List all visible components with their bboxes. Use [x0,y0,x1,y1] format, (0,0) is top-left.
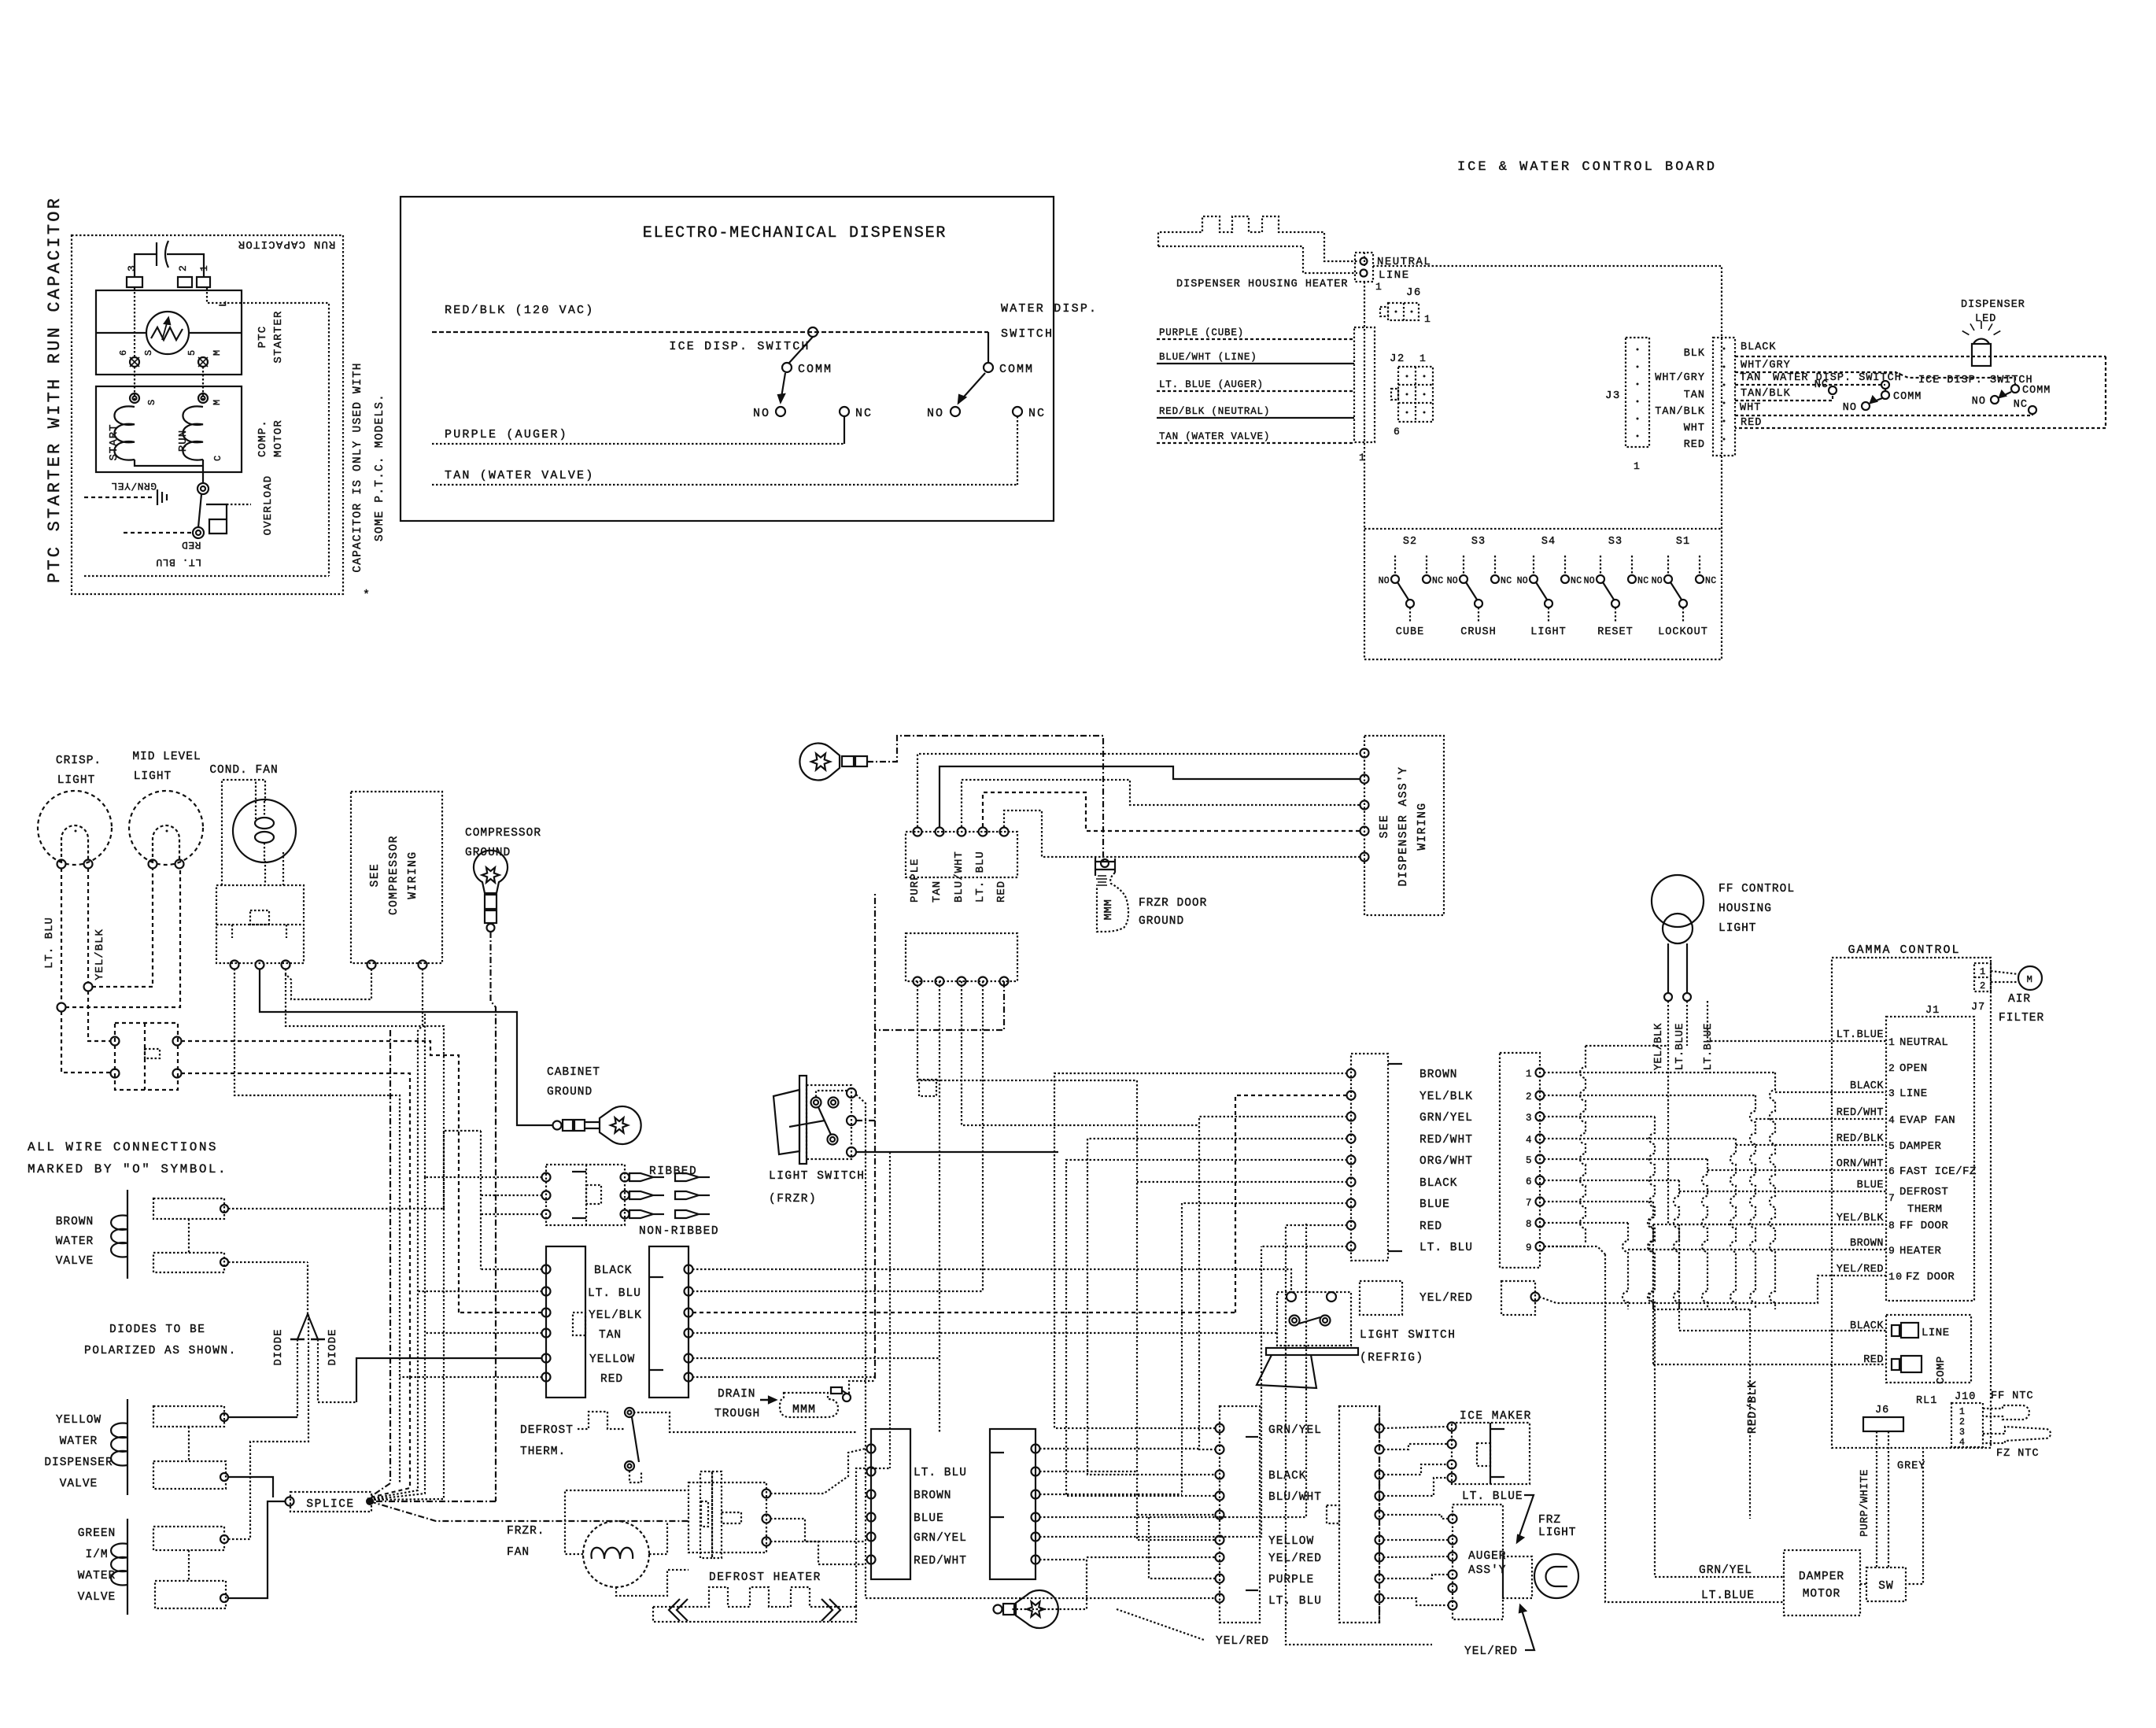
wire compressor ground down [491,932,497,1501]
light switch FRZR blade [818,1107,831,1135]
svg-text:10: 10 [1888,1271,1903,1283]
J2 pin 4 [1536,1135,1545,1143]
freezer compartment connector terminal 9 [1216,1594,1224,1603]
board edge connector (right) [1713,338,1735,456]
svg-text:LED: LED [1975,313,1996,325]
svg-text:1: 1 [1375,281,1383,293]
auger terminal 3 [1449,1553,1457,1561]
wire to ice maker t2 [1383,1444,1448,1449]
wires PURP/WHITE to switch [1876,1431,1877,1567]
J2 pin 1 [1536,1069,1545,1077]
svg-text:S1: S1 [1676,536,1690,548]
svg-text:LT. BLU: LT. BLU [974,851,987,903]
wire J2 pin 1 to gamma bus [1544,1072,1775,1073]
freezer compartment connector left half [1220,1406,1260,1623]
wire purple to dispenser assy [917,754,1360,827]
svg-text:NO: NO [1652,576,1663,586]
yellow water dispenser valve solenoid [127,1399,128,1495]
svg-text:WHT/GRY: WHT/GRY [1741,360,1791,371]
ice dispenser switch NC contact [840,407,849,416]
control board outline [1364,266,1722,659]
svg-text:FRZR DOOR: FRZR DOOR [1139,897,1207,910]
svg-text:1: 1 [1419,353,1427,364]
svg-text:CABINET: CABINET [547,1066,600,1079]
svg-text:VALVE: VALVE [56,1255,94,1268]
svg-text:DISPENSER ASS'Y: DISPENSER ASS'Y [1397,766,1410,886]
right-half terminal 5 [685,1354,693,1363]
wire YELLOW mid run [692,1357,940,1359]
wire yellow valve lower to splice [228,1477,273,1497]
FF NTC thermistor [1983,1405,2029,1420]
freezer compartment connector terminal 6 [1216,1536,1224,1545]
FZ NTC thermistor [1983,1427,2051,1443]
svg-text:GREEN: GREEN [78,1527,116,1540]
start winding [114,406,135,460]
freezer harness right terminal 1 [1032,1445,1040,1453]
svg-text:DIODE: DIODE [272,1328,285,1365]
gamma control board outline [1832,958,1991,1448]
svg-text:NC: NC [2014,399,2028,411]
wire x611 multi-tap vertical [480,1131,482,1269]
freezer door ground symbol [1101,859,1109,867]
wire YEL/RED connector to gamma FZ DOOR [1539,1276,1886,1303]
svg-text:S: S [146,398,157,405]
svg-text:BROWN: BROWN [914,1490,952,1502]
wire LT. BLU mid run [692,1290,983,1292]
svg-text:TAN (WATER VALVE): TAN (WATER VALVE) [1159,431,1270,442]
wire blue/wht line [1157,363,1354,364]
svg-text:YEL/RED: YEL/RED [1837,1264,1884,1276]
light switch FRZR terminal 2 [847,1116,856,1125]
svg-text:9: 9 [1526,1242,1533,1254]
wire t9 feed [866,1154,1216,1598]
ribbed connector left terminal 3 [542,1210,551,1219]
electro-mechanical dispenser enclosure [401,197,1054,521]
right-half terminal 4 [685,1329,693,1338]
svg-text:LT. BLU: LT. BLU [914,1467,967,1479]
light switch REFRIG terminal A [1287,1292,1296,1302]
ribbed connector right terminal 3 [621,1210,629,1219]
relay terminal 3 [282,961,290,969]
svg-text:2: 2 [1959,1417,1966,1427]
harness connector (right half) [649,1246,689,1398]
auger terminal 1 [1449,1515,1457,1523]
svg-text:RED/BLK (120 VAC): RED/BLK (120 VAC) [445,304,594,317]
auger terminal 6 [1449,1601,1457,1610]
lower half terminal 3 [958,977,966,986]
harness pin BROWN [1347,1069,1356,1078]
relay terminal 1 [231,961,239,969]
harness pin LT. BLU [1347,1242,1356,1251]
svg-text:ASS'Y: ASS'Y [1468,1564,1507,1577]
wire windings common to overload [135,460,203,466]
svg-text:FF NTC: FF NTC [1991,1390,2034,1402]
svg-text:YELLOW: YELLOW [589,1353,635,1366]
svg-text:OVERLOAD: OVERLOAD [262,475,275,536]
wire freezer harness t4 right [1039,1224,1306,1517]
right-half terminal 1 [685,1265,693,1274]
ribbed connector left terminal 1 [542,1173,551,1182]
svg-text:1: 1 [1424,313,1431,325]
wire damper to SW [1860,1583,1866,1585]
FF light terminal 2 [1683,993,1691,1001]
wire diode common up [307,1262,308,1314]
svg-text:4: 4 [1959,1438,1966,1448]
relay terminal 2 [256,961,264,969]
ice disp switch NO (right) [1991,396,1999,404]
svg-text:CAPACITOR IS ONLY USED WITH: CAPACITOR IS ONLY USED WITH [352,362,364,572]
defrost heater left chevrons [669,1599,680,1621]
svg-text:FF DOOR: FF DOOR [1899,1220,1948,1232]
svg-text:TAN: TAN [931,881,943,903]
wire blu/wht to dispenser assy [962,780,1360,827]
wire tan to dispenser assy [940,766,1360,827]
svg-text:J2: J2 [1390,353,1405,365]
wire LT. BLU run [1261,1246,1347,1247]
svg-text:GROUND: GROUND [1139,915,1184,928]
svg-text:NO: NO [1517,576,1528,586]
upper half terminal 3 [958,828,966,836]
right-half terminal 6 [685,1373,693,1382]
dispenser assy terminal 2 [1360,775,1369,784]
wire x1112 drain trough riser [874,1121,876,1381]
right half terminal 1 [1375,1424,1384,1433]
board edge connector J1 (left, dashed) [1354,327,1375,442]
node junction on RED/BLK wire [808,327,818,337]
terminal 3 of PTC starter [127,277,142,287]
harness pin GRN/YEL [1347,1113,1356,1121]
ice maker terminal 1 [1448,1423,1456,1431]
svg-text:OPEN: OPEN [1899,1062,1928,1075]
wire timer t1 right [770,1449,866,1494]
door switch terminal bottom-left [111,1069,120,1078]
svg-text:LIGHT SWITCH: LIGHT SWITCH [769,1170,865,1183]
PTC/run-capacitor outer enclosure box [72,235,343,594]
svg-text:LT. BLU: LT. BLU [156,556,201,568]
terminal 1 of PTC starter [197,277,210,287]
light switch REFRIG mounting plate [1266,1348,1358,1355]
svg-text:RED: RED [1684,439,1705,451]
ribbed pin arrows row3 [629,1210,653,1218]
svg-text:BLACK: BLACK [1850,1080,1884,1092]
svg-text:ICE DISP. SWITCH: ICE DISP. SWITCH [669,340,810,353]
wire door switch top-right to ribbed and black runs [181,1041,459,1313]
svg-text:6: 6 [1526,1176,1533,1187]
svg-text:TROUGH: TROUGH [714,1408,760,1420]
wire to auger t2 [1383,1539,1449,1541]
svg-text:BROWN: BROWN [1850,1238,1884,1250]
wire red lower down to dash-dot rail [875,981,1004,1030]
lower half terminal 5 [1000,977,1009,986]
svg-text:S2: S2 [1403,536,1417,548]
dispenser harness connector lower half [906,933,1017,981]
light switch FRZR terminal 3 [847,1147,856,1157]
svg-text:BLACK: BLACK [594,1265,633,1277]
wire YEL/BLK run (dashed) [1235,1095,1347,1313]
svg-text:SEE: SEE [1379,814,1391,839]
wire t8 feed [1149,1517,1216,1578]
J2 pin 5 [1536,1155,1545,1164]
svg-text:FILTER: FILTER [1999,1012,2044,1025]
harness pin RED [1347,1221,1356,1230]
relay RL1 box [1886,1315,1971,1383]
svg-text:BLU/WHT: BLU/WHT [1268,1491,1322,1504]
svg-text:NC: NC [1571,576,1582,586]
freezer harness left terminal 6 [867,1556,876,1564]
wire PURPLE auger [432,443,844,445]
svg-text:PURP/WHITE: PURP/WHITE [1859,1469,1871,1537]
ribbed/non-ribbed connector block [546,1165,625,1225]
svg-text:4: 4 [1526,1135,1533,1146]
svg-text:GRN/YEL: GRN/YEL [914,1532,967,1545]
svg-text:YEL/RED: YEL/RED [1464,1645,1518,1658]
svg-text:DEFROST: DEFROST [520,1424,574,1437]
wire TAN mid run [692,1332,1277,1334]
water disp switch blade [1870,398,1882,403]
wire J2 pin 4 to gamma bus [1544,1138,1736,1139]
freezer compartment connector right half [1339,1406,1379,1623]
svg-text:AIR: AIR [2008,993,2031,1006]
harness pin BLACK [1347,1178,1356,1187]
svg-text:S3: S3 [1608,536,1623,548]
wire BLACK from left-half to x611 [481,1268,542,1270]
svg-text:MMM: MMM [1102,899,1115,921]
svg-text:YEL/BLK: YEL/BLK [1419,1091,1473,1103]
svg-text:SW: SW [1878,1580,1893,1593]
svg-text:DEFROST: DEFROST [1899,1186,1948,1198]
wire J2 pin 3 to damper GRN/YEL [1649,1117,1655,1577]
wire ORG/WHT run [1066,1160,1347,1496]
svg-text:POLARIZED AS SHOWN.: POLARIZED AS SHOWN. [84,1345,237,1357]
box SEE DISPENSER ASS'Y WIRING [1364,736,1444,915]
right half terminal 4 [1375,1492,1384,1501]
svg-text:J6: J6 [1875,1405,1889,1416]
svg-text:GRN/YEL: GRN/YEL [111,480,157,492]
wire frzr switch t1 to x1100 [856,1095,866,1154]
light switch FRZR terminal 1 [847,1088,856,1098]
svg-text:LIGHT: LIGHT [1530,626,1567,638]
svg-text:BLUE: BLUE [914,1512,944,1525]
defrost timer block [689,1482,766,1553]
svg-text:LINE: LINE [1922,1327,1950,1339]
svg-text:BLACK: BLACK [1741,342,1777,353]
harness connector (left half) BLACK..RED [546,1246,585,1398]
svg-text:LT.BLUE: LT.BLUE [1674,1023,1686,1070]
svg-text:YEL/BLK: YEL/BLK [1653,1023,1665,1071]
wire lt. blu to dispenser assy [983,792,1360,831]
svg-text:BLUE: BLUE [1857,1180,1884,1191]
defrost thermostat contact top [625,1408,634,1417]
svg-text:MARKED BY "O" SYMBOL.: MARKED BY "O" SYMBOL. [28,1162,227,1176]
wire NC to TAN water valve line [1017,416,1018,485]
svg-text:ALL WIRE CONNECTIONS: ALL WIRE CONNECTIONS [28,1140,218,1154]
wire purple cube [1157,338,1354,340]
lower half terminal 1 [914,977,922,986]
crisper light lamp [38,791,112,865]
wire brown valve lower to diode common [228,1261,308,1263]
brown water valve solenoid [127,1190,128,1279]
svg-text:6: 6 [1394,426,1401,438]
light switch REFRIG contact A [1290,1316,1300,1326]
wire GRN/YEL run [1199,1117,1347,1449]
svg-text:S3: S3 [1471,536,1486,548]
svg-text:DAMPER: DAMPER [1899,1140,1942,1153]
ribbed pin arrows row1 [629,1173,653,1181]
RL1 line contact [1892,1325,1899,1336]
YEL/RED connector right half [1501,1281,1535,1315]
right-half terminal 2 [685,1287,693,1296]
svg-text:DISPENSER: DISPENSER [44,1457,113,1469]
FF light terminal 1 [1664,993,1672,1001]
wire defrost therm top to timer [633,1412,857,1432]
ice disp switch blade (right) [1999,392,2011,397]
small junction box above light switch refrig [919,1080,936,1096]
wire green valve upper riser [228,1313,308,1539]
wire TAN to water disp switch [1735,384,1885,386]
svg-text:2: 2 [1980,980,1987,991]
auger terminal 2 [1449,1536,1457,1545]
auger terminal 4 [1449,1571,1457,1579]
wire brown valve upper to bundle [228,1208,444,1209]
ice disp switch COMM (right) [2011,385,2019,393]
svg-text:AUGER: AUGER [1468,1550,1507,1563]
svg-text:RED/WHT: RED/WHT [1419,1134,1473,1146]
wire x1131 riser [889,1152,891,1468]
wire freezer harness t5 right [1039,1246,1261,1537]
wire to auger t1 [1383,1515,1449,1519]
svg-text:PURPLE: PURPLE [909,858,921,903]
J2 pin 3 [1536,1113,1545,1121]
freezer harness right terminal 5 [1032,1533,1040,1542]
wire NC to PURPLE auger line [844,416,845,444]
svg-text:BLACK: BLACK [1850,1320,1884,1332]
wire capacitor terminal-1 loop to bottom rail [207,288,329,576]
svg-text:BLACK: BLACK [1419,1177,1458,1190]
wire relay terminal3 to compressor terminal1 [286,969,371,999]
svg-text:3: 3 [126,264,138,271]
svg-text:WIRING: WIRING [1416,802,1429,850]
J2 pin 2 [1536,1091,1545,1100]
svg-text:NC: NC [1501,576,1512,586]
wire loop right edge (black to red) [1735,356,2106,428]
run winding [183,406,203,460]
freezer compartment connector terminal 1 [1216,1424,1224,1433]
wire RED from left-half [400,1376,542,1378]
pin 6 (S) of PTC starter [130,357,139,367]
light switch REFRIG terminal B [1327,1292,1336,1302]
svg-text:GRN/YEL: GRN/YEL [1268,1424,1322,1437]
drain trough heater blob [780,1393,838,1417]
water dispenser switch COMM contact [984,363,993,372]
defrost thermostat step wire [578,1412,624,1429]
timer terminal 2 [762,1515,771,1523]
svg-text:8: 8 [1888,1220,1896,1231]
J2 pin 7 [1536,1198,1545,1206]
svg-text:J10: J10 [1955,1391,1976,1403]
dispenser assy terminal 1 [1360,749,1369,758]
compressor box terminal 2 [419,961,427,969]
svg-text:RED/BLK: RED/BLK [1837,1133,1885,1145]
svg-text:GRN/YEL: GRN/YEL [1699,1564,1752,1577]
wire frzr switch t1 riser [816,1091,847,1097]
left-half terminal 2 [542,1287,551,1296]
cabinet ground lug [553,1121,562,1130]
svg-text:NC: NC [1432,576,1443,586]
svg-text:ICE & WATER CONTROL BOARD: ICE & WATER CONTROL BOARD [1457,160,1717,175]
condenser fan motor housing [222,780,265,885]
svg-text:1: 1 [1888,1036,1896,1048]
svg-text:LIGHT SWITCH: LIGHT SWITCH [1360,1329,1456,1342]
harness pin YEL/BLK [1347,1091,1356,1100]
drain trough ground stub [831,1387,842,1394]
svg-text:WHT/GRY: WHT/GRY [1655,372,1705,384]
svg-text:ORN/WHT: ORN/WHT [1837,1158,1884,1170]
wire J2 pin 9 to damper LT.BLUE [1544,1246,1605,1254]
svg-text:RED: RED [1741,417,1762,429]
svg-text:BLU/WHT: BLU/WHT [953,851,965,903]
light switch REFRIG body [1277,1292,1351,1346]
J2 pin 8 [1536,1219,1545,1228]
svg-text:COMM: COMM [798,363,832,376]
svg-text:WATER: WATER [78,1570,116,1582]
wire ribbed t3 to x611 [481,1213,542,1215]
svg-text:RUN CAPACITOR: RUN CAPACITOR [238,238,336,250]
auger assembly box [1453,1505,1503,1619]
wire timer t2 right [770,1519,866,1542]
light switch FRZR mounting plate [799,1076,807,1164]
pin 5 (M) of PTC starter [198,357,208,367]
upper half terminal 5 [1000,828,1009,836]
right-half terminal 3 [685,1309,693,1317]
wire PTC pins to motor pins [134,288,135,357]
svg-text:COND. FAN: COND. FAN [209,764,278,777]
svg-text:TAN/BLK: TAN/BLK [1655,406,1705,418]
condenser fan relay block [216,885,304,963]
svg-text:2: 2 [1526,1091,1533,1102]
wire TAN from left-half [425,1332,542,1334]
wire door switch bottom-right down to splice [181,1073,410,1498]
svg-text:DRAIN: DRAIN [718,1388,756,1401]
ice maker box [1452,1423,1530,1484]
water dispenser switch NO contact [951,407,960,416]
svg-text:COMPRESSOR: COMPRESSOR [388,835,401,915]
freezer compartment connector terminal 2 [1216,1446,1224,1454]
RL1 comp contact [1892,1359,1899,1370]
J2 pin 9 [1536,1242,1545,1251]
wire lt blue auger [1157,390,1354,392]
wire to auger t5 [1383,1598,1449,1605]
light switch REFRIG rocker [1257,1355,1316,1388]
harness pin ORG/WHT [1347,1156,1356,1165]
svg-text:FAST ICE/FZ: FAST ICE/FZ [1899,1165,1977,1178]
svg-text:CRUSH: CRUSH [1460,626,1497,638]
svg-text:PURPLE (CUBE): PURPLE (CUBE) [1159,327,1244,338]
timer terminal 1 [762,1490,771,1498]
wire LT.BLUE to J1 neutral [1707,1001,1886,1041]
svg-text:LT. BLU: LT. BLU [43,917,56,969]
freezer compartment connector terminal 5 [1216,1511,1224,1519]
auger terminal 5 [1449,1584,1457,1593]
dispenser assy terminal 4 [1360,827,1369,836]
terminal 2 of PTC starter [178,277,192,287]
svg-text:YEL/BLK: YEL/BLK [589,1309,642,1322]
ribbed connector right terminal 1 [621,1173,629,1182]
wire RED/BLK to water switch COMM [988,332,989,363]
svg-text:COMP.: COMP. [257,419,269,457]
light switch FRZR rocker [773,1090,799,1154]
svg-text:PURPLE: PURPLE [1268,1574,1314,1586]
svg-text:YEL/RED: YEL/RED [1419,1292,1473,1305]
